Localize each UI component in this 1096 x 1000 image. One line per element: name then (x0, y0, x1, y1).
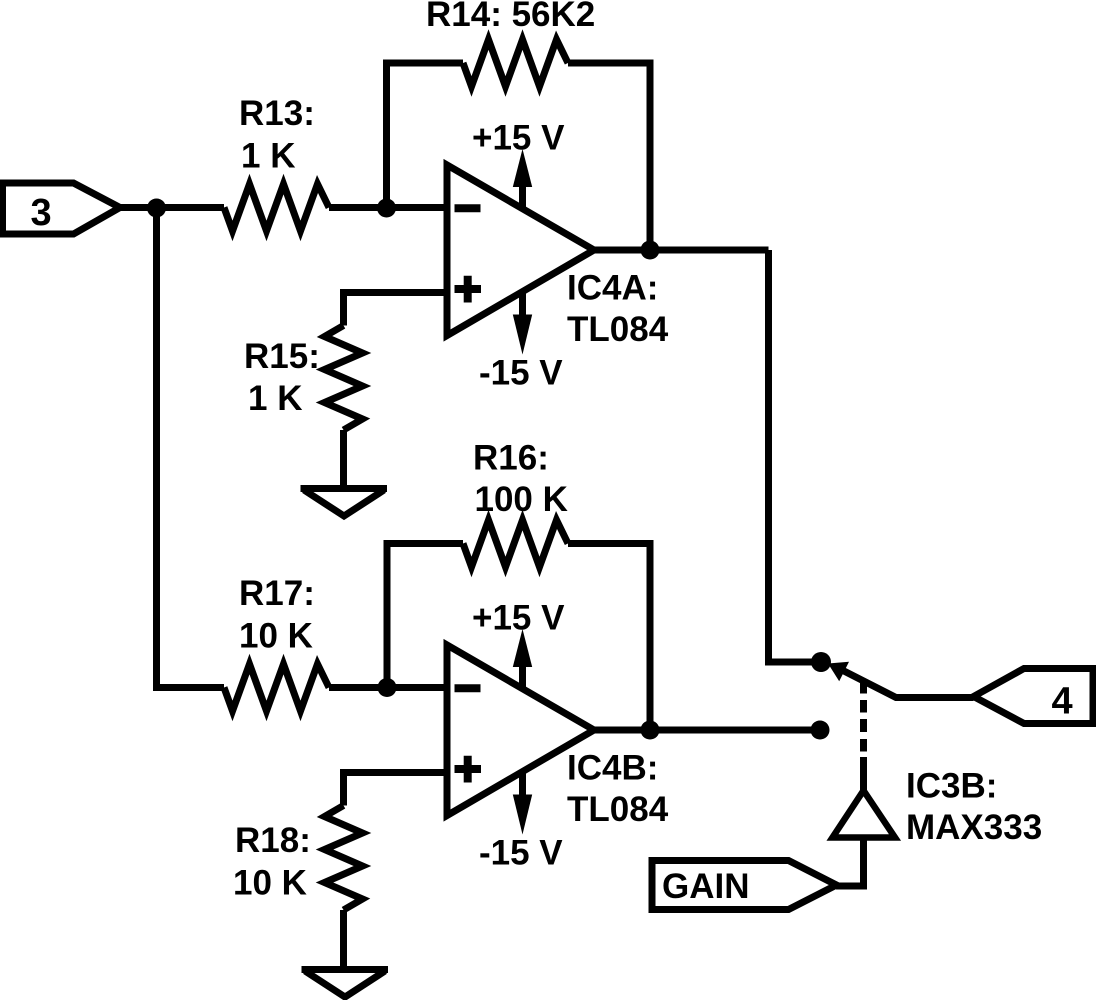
wire R14 to output drop (568, 63, 650, 250)
label IC3B: MAX333 (906, 767, 1042, 848)
svg-text:R15:: R15: (244, 337, 320, 376)
svg-text:-15 V: -15 V (479, 354, 563, 393)
svg-text:R18:: R18: (235, 821, 311, 860)
svg-text:GAIN: GAIN (662, 867, 750, 906)
ground (R15) (301, 489, 388, 517)
wire from terminal 3 to R13 (120, 204, 224, 211)
switch IC3B lever wire to terminal 4 (842, 670, 974, 698)
svg-text:TL084: TL084 (567, 790, 669, 829)
resistor R15 (325, 326, 363, 431)
svg-text:1 K: 1 K (248, 379, 302, 418)
svg-text:1 K: 1 K (241, 137, 295, 176)
node B junction dot (inverting input IC4A) (377, 199, 396, 218)
node A junction dot (input node) (147, 199, 166, 218)
power -15 V arrow IC4B (479, 770, 563, 873)
label R13: 1 K (239, 94, 315, 176)
svg-text:R16:: R16: (473, 439, 549, 478)
svg-text:IC4A:: IC4A: (567, 269, 658, 308)
power +15 V arrow IC4A (472, 119, 565, 211)
node D junction dot (inverting input IC4B) (378, 678, 397, 697)
op-amp U2 IC4B triangle (447, 645, 594, 816)
wire IC4A output down to switch (769, 250, 822, 662)
svg-text:MAX333: MAX333 (906, 808, 1042, 847)
wire + input IC4B to R18 (344, 773, 447, 806)
pin plus IC4A (455, 276, 482, 303)
pin plus IC4B (455, 756, 482, 783)
svg-text:TL084: TL084 (567, 310, 669, 349)
svg-text:R17:: R17: (239, 574, 315, 613)
pin minus IC4B (455, 684, 481, 692)
label R18: 10 K (233, 821, 311, 903)
label R16: 100 K (473, 439, 568, 520)
op-amp U1 IC4A triangle (447, 165, 594, 336)
svg-text:10 K: 10 K (233, 864, 307, 903)
ground (R18) (302, 970, 389, 998)
wire R18 to ground (340, 910, 347, 970)
pin minus IC4A (455, 204, 481, 212)
svg-text:IC4B:: IC4B: (567, 749, 658, 788)
wire R13 to op-amp inverting input (329, 204, 446, 211)
terminal GAIN (652, 861, 837, 910)
resistor R17 (224, 664, 329, 711)
wire GAIN terminal to driver triangle (836, 838, 864, 887)
power -15 V arrow IC4A (479, 290, 563, 393)
label R15: 1 K (244, 337, 320, 418)
svg-text:4: 4 (1052, 681, 1073, 723)
wire dashed control line IC3B (860, 679, 867, 791)
resistor R13 (224, 184, 329, 231)
terminal 4 (974, 669, 1094, 724)
wire vertical trunk from node A down to R17 (157, 208, 225, 688)
svg-text:+15 V: +15 V (472, 119, 565, 158)
svg-text:3: 3 (31, 192, 52, 234)
wire R15 to ground (340, 430, 347, 489)
wire feedback riser from node D up to R16 (387, 544, 463, 688)
resistor R18 (325, 806, 363, 911)
wire R16 to output drop IC4B (568, 544, 650, 731)
svg-text:100 K: 100 K (475, 480, 568, 519)
svg-text:-15 V: -15 V (479, 834, 563, 873)
svg-text:IC3B:: IC3B: (906, 767, 997, 806)
node E junction dot (IC4B output / feedback) (641, 721, 660, 740)
label IC4B: TL084 (567, 749, 669, 830)
wire + input IC4A to R15 (344, 293, 447, 326)
resistor R14 (463, 40, 568, 87)
terminal 3 (3, 183, 121, 234)
wire IC4B output to open contact (594, 727, 820, 734)
wire feedback riser from node B up to R14 (387, 63, 464, 208)
wire IC4A output (594, 247, 769, 254)
svg-text:R14: 56K2: R14: 56K2 (426, 0, 595, 34)
svg-text:10 K: 10 K (239, 617, 313, 656)
node F open switch contact dot (811, 721, 830, 740)
svg-text:+15 V: +15 V (472, 599, 565, 638)
power +15 V arrow IC4B (472, 599, 565, 691)
node G switch common dot (closed contact) (811, 652, 831, 672)
svg-text:R13:: R13: (239, 94, 315, 133)
switch IC3B lever arrowhead (828, 662, 849, 682)
label IC4A: TL084 (567, 269, 669, 350)
switch driver triangle IC3B (833, 791, 896, 838)
label R17: 10 K (239, 574, 315, 656)
resistor R16 (463, 520, 568, 567)
node C junction dot (IC4A output / feedback) (641, 241, 660, 260)
wire R17 to op-amp IC4B inverting input (329, 684, 446, 691)
